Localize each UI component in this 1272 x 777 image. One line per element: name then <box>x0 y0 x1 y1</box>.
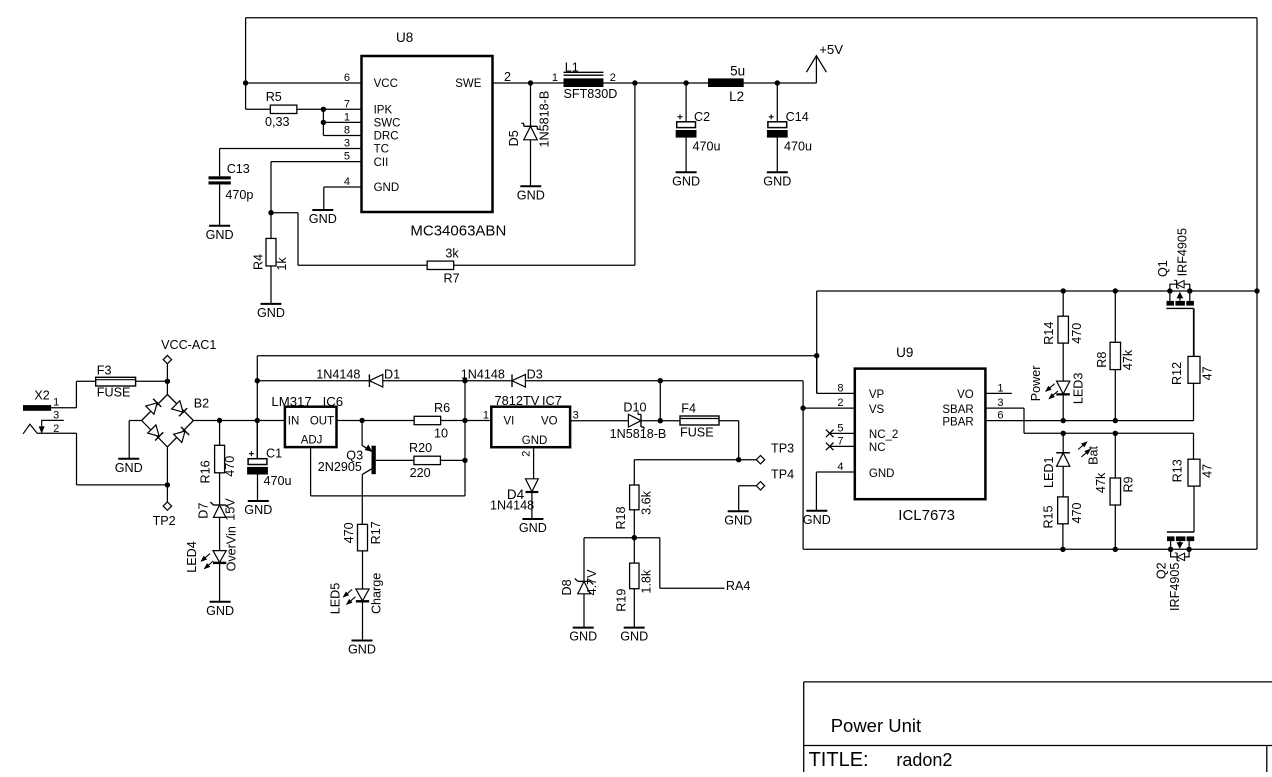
svg-text:IN: IN <box>288 416 300 428</box>
svg-text:LED4: LED4 <box>185 541 199 573</box>
svg-text:GND: GND <box>206 228 234 242</box>
svg-text:GND: GND <box>672 174 700 188</box>
svg-text:F3: F3 <box>97 364 112 378</box>
svg-text:TP4: TP4 <box>771 468 794 482</box>
svg-text:IRF4905: IRF4905 <box>1176 228 1190 276</box>
svg-text:IC6: IC6 <box>323 394 344 409</box>
svg-text:VO: VO <box>957 389 974 401</box>
svg-text:DRC: DRC <box>374 131 399 143</box>
svg-text:GND: GND <box>244 503 272 517</box>
svg-text:2: 2 <box>837 397 843 409</box>
svg-text:VCC-AC1: VCC-AC1 <box>161 338 216 352</box>
svg-text:VCC: VCC <box>374 78 398 90</box>
svg-text:0,33: 0,33 <box>265 115 290 129</box>
svg-text:3.6k: 3.6k <box>640 490 654 515</box>
svg-text:470: 470 <box>1070 502 1084 523</box>
svg-text:MC34063ABN: MC34063ABN <box>410 222 506 239</box>
svg-text:C1: C1 <box>266 447 282 461</box>
svg-text:SFT830D: SFT830D <box>564 87 618 101</box>
svg-text:R18: R18 <box>614 506 628 529</box>
svg-text:5: 5 <box>837 422 843 434</box>
svg-text:Power: Power <box>1029 366 1043 402</box>
svg-text:8: 8 <box>344 125 350 137</box>
svg-text:GND: GND <box>374 182 400 194</box>
svg-text:X2: X2 <box>34 389 49 403</box>
svg-text:SBAR: SBAR <box>942 404 973 416</box>
svg-text:C2: C2 <box>694 110 710 124</box>
svg-text:470p: 470p <box>225 188 253 202</box>
svg-text:NC_2: NC_2 <box>869 429 898 441</box>
svg-text:IRF4905: IRF4905 <box>1168 563 1182 611</box>
svg-text:7: 7 <box>344 98 350 110</box>
svg-text:LM317: LM317 <box>271 394 311 409</box>
svg-text:C13: C13 <box>227 162 250 176</box>
svg-text:OUT: OUT <box>310 416 334 428</box>
svg-text:5: 5 <box>344 151 350 163</box>
svg-text:R12: R12 <box>1170 362 1184 385</box>
svg-text:C14: C14 <box>786 110 809 124</box>
svg-text:R5: R5 <box>266 90 282 104</box>
svg-text:TITLE:: TITLE: <box>809 749 869 771</box>
svg-text:GND: GND <box>620 630 648 644</box>
svg-text:ICL7673: ICL7673 <box>898 507 955 524</box>
svg-text:3: 3 <box>573 409 579 421</box>
svg-text:GND: GND <box>522 435 548 447</box>
svg-text:LED1: LED1 <box>1042 456 1056 488</box>
svg-text:1N4148: 1N4148 <box>316 367 360 381</box>
svg-text:Q1: Q1 <box>1156 260 1170 277</box>
svg-text:VS: VS <box>869 404 885 416</box>
svg-text:GND: GND <box>569 630 597 644</box>
svg-text:R13: R13 <box>1171 459 1185 482</box>
svg-text:6: 6 <box>344 72 350 84</box>
svg-text:GND: GND <box>517 188 545 202</box>
svg-text:GND: GND <box>206 604 234 618</box>
svg-text:TP2: TP2 <box>153 514 176 528</box>
svg-text:1: 1 <box>53 397 59 409</box>
svg-text:R19: R19 <box>615 589 629 612</box>
svg-text:2: 2 <box>610 72 616 84</box>
svg-text:1N5818-B: 1N5818-B <box>610 427 667 441</box>
svg-text:1N4148: 1N4148 <box>490 499 534 513</box>
svg-text:IPK: IPK <box>374 105 393 117</box>
svg-text:220: 220 <box>410 466 431 480</box>
svg-text:R8: R8 <box>1095 352 1109 368</box>
svg-text:SWC: SWC <box>374 118 401 130</box>
svg-text:1: 1 <box>997 382 1003 394</box>
svg-text:7: 7 <box>837 435 843 447</box>
svg-text:SWE: SWE <box>455 78 482 90</box>
svg-text:3: 3 <box>53 409 59 421</box>
svg-text:GND: GND <box>763 174 791 188</box>
svg-text:R6: R6 <box>434 401 450 415</box>
svg-text:R17: R17 <box>369 521 383 544</box>
svg-text:TC: TC <box>374 144 389 156</box>
svg-text:470u: 470u <box>784 140 812 154</box>
svg-text:GND: GND <box>309 212 337 226</box>
svg-text:radon2: radon2 <box>896 750 952 770</box>
svg-text:47k: 47k <box>1094 472 1108 493</box>
svg-text:R16: R16 <box>199 460 213 483</box>
svg-text:GND: GND <box>519 521 547 535</box>
svg-text:GND: GND <box>803 513 831 527</box>
svg-text:1.8k: 1.8k <box>640 569 654 594</box>
svg-text:1: 1 <box>552 72 558 84</box>
svg-text:470u: 470u <box>264 474 292 488</box>
svg-text:2: 2 <box>53 423 59 435</box>
svg-text:Power Unit: Power Unit <box>831 715 921 736</box>
svg-text:3k: 3k <box>445 247 459 261</box>
svg-text:Q2: Q2 <box>1155 562 1169 579</box>
svg-text:R14: R14 <box>1042 322 1056 345</box>
svg-text:1: 1 <box>344 111 350 123</box>
svg-text:PBAR: PBAR <box>942 416 973 428</box>
svg-text:LED5: LED5 <box>329 583 343 615</box>
svg-text:10: 10 <box>434 427 448 441</box>
svg-text:47: 47 <box>1200 464 1214 478</box>
svg-text:1k: 1k <box>275 257 289 271</box>
svg-text:3: 3 <box>997 397 1003 409</box>
svg-text:R20: R20 <box>409 441 432 455</box>
svg-text:FUSE: FUSE <box>97 386 131 400</box>
svg-text:Charge: Charge <box>369 573 383 614</box>
svg-text:1N5818-B: 1N5818-B <box>537 91 551 148</box>
svg-text:2: 2 <box>504 70 511 84</box>
svg-text:4: 4 <box>344 176 350 188</box>
svg-text:470: 470 <box>342 522 356 543</box>
svg-text:NC: NC <box>869 442 886 454</box>
svg-text:GND: GND <box>724 513 752 527</box>
svg-text:47: 47 <box>1200 366 1214 380</box>
svg-text:D1: D1 <box>384 368 400 382</box>
svg-text:D8: D8 <box>560 579 574 595</box>
svg-text:VO: VO <box>541 416 558 428</box>
svg-text:8: 8 <box>837 382 843 394</box>
svg-text:VP: VP <box>869 389 885 401</box>
svg-text:LED3: LED3 <box>1072 373 1086 405</box>
svg-text:3: 3 <box>344 138 350 150</box>
svg-text:470u: 470u <box>693 140 721 154</box>
svg-text:IC7: IC7 <box>542 393 562 408</box>
svg-text:D3: D3 <box>527 368 543 382</box>
svg-text:U8: U8 <box>396 30 413 45</box>
svg-text:2N2905: 2N2905 <box>318 460 362 474</box>
svg-text:L2: L2 <box>729 89 744 104</box>
svg-text:VI: VI <box>504 416 515 428</box>
svg-text:5u: 5u <box>730 63 745 78</box>
svg-text:1: 1 <box>483 409 489 421</box>
svg-text:15V: 15V <box>224 498 238 521</box>
svg-text:B2: B2 <box>194 396 209 410</box>
svg-text:D7: D7 <box>196 503 210 519</box>
svg-text:7812TV: 7812TV <box>495 393 540 408</box>
svg-text:FUSE: FUSE <box>680 425 714 439</box>
svg-text:Bat: Bat <box>1087 445 1101 464</box>
svg-text:GND: GND <box>348 643 376 657</box>
svg-text:U9: U9 <box>896 345 913 360</box>
svg-text:GND: GND <box>257 306 285 320</box>
svg-text:L1: L1 <box>565 60 579 74</box>
svg-text:F4: F4 <box>681 401 696 415</box>
svg-text:1N4148: 1N4148 <box>461 367 505 381</box>
svg-text:D5: D5 <box>507 130 521 146</box>
svg-text:R9: R9 <box>1122 476 1136 492</box>
svg-text:GND: GND <box>115 461 143 475</box>
svg-text:CII: CII <box>374 157 389 169</box>
svg-text:+5V: +5V <box>819 42 843 57</box>
svg-text:ADJ: ADJ <box>301 435 323 447</box>
svg-text:TP3: TP3 <box>771 442 794 456</box>
svg-text:6: 6 <box>997 410 1003 422</box>
svg-text:RA4: RA4 <box>726 579 751 593</box>
svg-text:OverVin: OverVin <box>225 526 239 571</box>
svg-text:GND: GND <box>869 468 895 480</box>
svg-text:D10: D10 <box>623 400 646 414</box>
svg-text:R4: R4 <box>252 254 266 270</box>
svg-text:R15: R15 <box>1042 505 1056 528</box>
svg-text:4.7V: 4.7V <box>585 569 599 596</box>
svg-text:2: 2 <box>521 451 533 457</box>
svg-text:470: 470 <box>1070 323 1084 344</box>
svg-text:47k: 47k <box>1121 349 1135 370</box>
svg-text:470: 470 <box>223 456 237 477</box>
svg-text:R7: R7 <box>444 271 460 285</box>
svg-text:4: 4 <box>837 461 843 473</box>
